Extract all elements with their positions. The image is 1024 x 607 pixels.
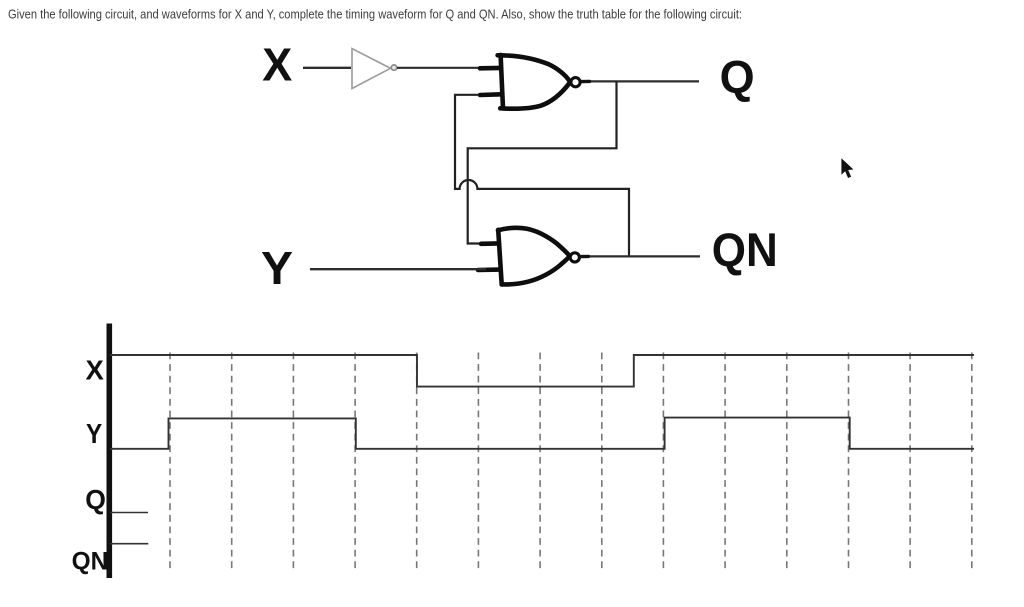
timing diagram axis bbox=[107, 324, 113, 579]
buffer U1 bbox=[352, 49, 391, 89]
svg-text:Given the following circuit, a: Given the following circuit, and wavefor… bbox=[8, 6, 742, 21]
NAND U3 output bubble bbox=[570, 253, 579, 262]
svg-text:Y: Y bbox=[86, 418, 102, 449]
svg-text:Y: Y bbox=[261, 242, 293, 294]
wire QN feedback with crossover hop to U2 lower input bbox=[455, 95, 629, 257]
timing grid dashed lines bbox=[170, 353, 972, 571]
waveform Q stub bbox=[110, 512, 148, 514]
wire U3 output to QN bbox=[581, 255, 701, 257]
svg-text:Q: Q bbox=[85, 484, 106, 515]
waveform X trace bbox=[110, 355, 974, 387]
NAND gate U2 bbox=[480, 55, 569, 109]
pen nub at U2 output bbox=[582, 80, 590, 84]
svg-text:Q: Q bbox=[720, 51, 755, 103]
wire X to buffer bbox=[303, 67, 351, 69]
NAND gate U3 bbox=[478, 228, 569, 285]
mouse cursor bbox=[841, 158, 853, 178]
svg-text:QN: QN bbox=[72, 548, 109, 576]
wire U2 output to Q bbox=[582, 80, 700, 82]
NAND U2 output bubble bbox=[571, 78, 580, 87]
waveform Y trace bbox=[110, 418, 974, 449]
wire Y to U3 lower input bbox=[310, 268, 486, 270]
wire Q feedback to U3 top input bbox=[468, 81, 617, 243]
pen nub at U3 output bbox=[581, 255, 589, 259]
buffer U1 output dot bbox=[391, 65, 396, 70]
waveform QN stub bbox=[110, 543, 148, 545]
svg-text:X: X bbox=[86, 354, 105, 385]
svg-text:QN: QN bbox=[712, 223, 778, 276]
svg-text:X: X bbox=[262, 39, 292, 91]
wire buffer to U2 top input bbox=[397, 67, 500, 69]
